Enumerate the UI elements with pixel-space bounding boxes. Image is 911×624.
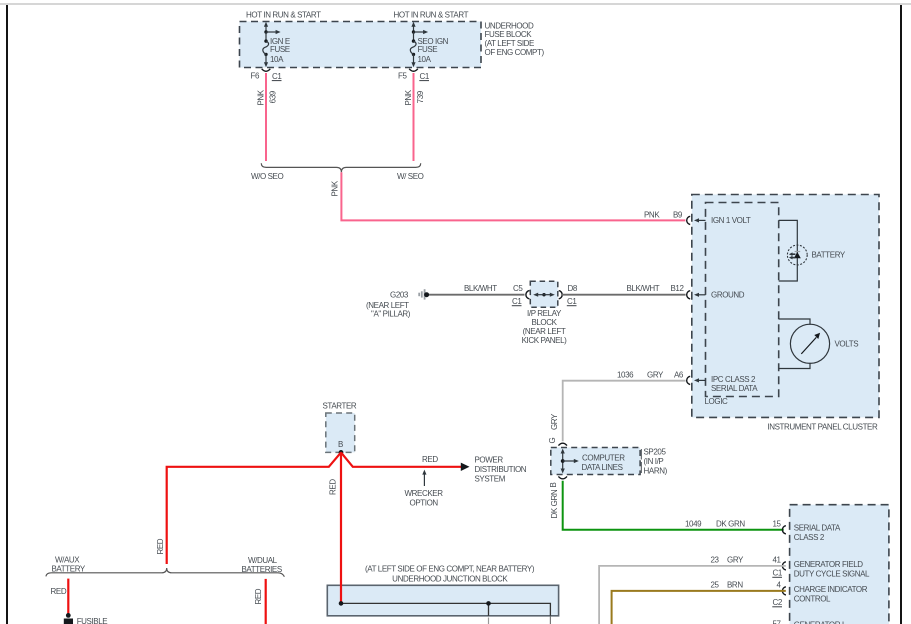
- svg-text:W/O SEO: W/O SEO: [251, 172, 283, 181]
- svg-text:1036: 1036: [617, 371, 634, 380]
- svg-text:C2: C2: [773, 598, 783, 607]
- svg-text:GENERATOR L: GENERATOR L: [794, 621, 847, 624]
- svg-text:G: G: [548, 438, 557, 444]
- svg-text:A6: A6: [674, 371, 684, 380]
- svg-text:CONTROL: CONTROL: [794, 594, 831, 603]
- svg-text:C1: C1: [272, 72, 282, 81]
- svg-text:W/DUAL: W/DUAL: [248, 556, 278, 565]
- svg-text:BLOCK: BLOCK: [531, 318, 557, 327]
- svg-text:GENERATOR FIELD: GENERATOR FIELD: [794, 560, 863, 569]
- svg-text:OPTION: OPTION: [410, 498, 439, 507]
- svg-text:(IN I/P: (IN I/P: [644, 457, 664, 466]
- svg-text:BATTERY: BATTERY: [812, 250, 846, 259]
- svg-text:UNDERHOOD JUNCTION BLOCK: UNDERHOOD JUNCTION BLOCK: [392, 574, 508, 583]
- svg-text:RED: RED: [51, 587, 67, 596]
- svg-text:F5: F5: [398, 71, 407, 80]
- svg-text:GROUND: GROUND: [711, 291, 745, 300]
- svg-text:PNK: PNK: [644, 211, 660, 220]
- svg-text:B12: B12: [671, 284, 685, 293]
- svg-text:INSTRUMENT PANEL CLUSTER: INSTRUMENT PANEL CLUSTER: [767, 423, 878, 432]
- svg-text:STARTER: STARTER: [323, 401, 357, 410]
- svg-text:DK GRN: DK GRN: [716, 519, 745, 528]
- svg-text:DATA LINES: DATA LINES: [582, 463, 623, 472]
- svg-text:FUSE BLOCK: FUSE BLOCK: [485, 30, 533, 39]
- svg-text:(AT LEFT SIDE: (AT LEFT SIDE: [485, 39, 535, 48]
- svg-text:"A" PILLAR): "A" PILLAR): [371, 310, 411, 319]
- svg-text:SERIAL DATA: SERIAL DATA: [794, 523, 841, 532]
- svg-text:639: 639: [269, 90, 278, 103]
- svg-text:DUTY CYCLE SIGNAL: DUTY CYCLE SIGNAL: [794, 569, 870, 578]
- svg-text:(AT LEFT SIDE OF ENG COMPT, NE: (AT LEFT SIDE OF ENG COMPT, NEAR BATTERY…: [365, 565, 535, 574]
- svg-text:POWER: POWER: [475, 456, 504, 465]
- svg-text:SYSTEM: SYSTEM: [475, 475, 506, 484]
- svg-text:C1: C1: [420, 72, 430, 81]
- svg-text:23: 23: [711, 555, 720, 564]
- svg-text:57: 57: [773, 619, 782, 624]
- svg-text:KICK PANEL): KICK PANEL): [522, 336, 568, 345]
- svg-text:W/ SEO: W/ SEO: [397, 172, 424, 181]
- svg-text:BATTERIES: BATTERIES: [242, 565, 282, 574]
- svg-text:W/AUX: W/AUX: [55, 556, 80, 565]
- svg-text:B: B: [338, 440, 343, 449]
- svg-text:10A: 10A: [270, 55, 284, 64]
- svg-text:HOT IN RUN & START: HOT IN RUN & START: [394, 11, 469, 20]
- svg-text:1049: 1049: [685, 519, 702, 528]
- svg-text:CLASS 2: CLASS 2: [794, 533, 825, 542]
- svg-text:RED: RED: [422, 455, 438, 464]
- svg-text:BLK/WHT: BLK/WHT: [627, 284, 660, 293]
- svg-text:C1: C1: [773, 568, 783, 577]
- svg-text:DK GRN: DK GRN: [550, 489, 559, 518]
- svg-text:B9: B9: [673, 211, 683, 220]
- svg-text:RED: RED: [254, 588, 263, 604]
- svg-text:15: 15: [773, 519, 782, 528]
- svg-text:(NEAR LEFT: (NEAR LEFT: [523, 327, 566, 336]
- svg-text:SP205: SP205: [644, 447, 667, 456]
- svg-text:739: 739: [416, 90, 425, 103]
- svg-text:FUSE: FUSE: [418, 45, 438, 54]
- svg-text:GRY: GRY: [727, 555, 744, 564]
- svg-text:F6: F6: [250, 71, 259, 80]
- svg-text:BLK/WHT: BLK/WHT: [464, 284, 497, 293]
- svg-text:FUSIBLE: FUSIBLE: [77, 617, 108, 624]
- svg-text:C1: C1: [567, 297, 577, 306]
- svg-text:HOT IN RUN & START: HOT IN RUN & START: [246, 11, 321, 20]
- svg-text:PNK: PNK: [256, 89, 265, 105]
- svg-text:WRECKER: WRECKER: [405, 489, 444, 498]
- svg-text:DISTRIBUTION: DISTRIBUTION: [475, 465, 527, 474]
- svg-text:10A: 10A: [418, 55, 432, 64]
- svg-text:LOGIC: LOGIC: [705, 397, 729, 406]
- svg-text:B: B: [549, 483, 558, 488]
- svg-text:G203: G203: [390, 291, 409, 300]
- svg-text:C5: C5: [513, 284, 523, 293]
- svg-text:GRY: GRY: [647, 371, 664, 380]
- svg-text:4: 4: [777, 580, 782, 589]
- svg-text:RED: RED: [156, 538, 165, 554]
- svg-text:COMPUTER: COMPUTER: [582, 454, 625, 463]
- svg-text:BATTERY: BATTERY: [52, 565, 86, 574]
- svg-text:41: 41: [773, 555, 782, 564]
- svg-text:PNK: PNK: [331, 180, 340, 196]
- svg-text:I/P RELAY: I/P RELAY: [527, 309, 562, 318]
- svg-text:HARN): HARN): [644, 466, 668, 475]
- svg-text:CHARGE INDICATOR: CHARGE INDICATOR: [794, 585, 868, 594]
- svg-text:IGN 1 VOLT: IGN 1 VOLT: [711, 216, 751, 225]
- svg-text:GRY: GRY: [550, 413, 559, 430]
- svg-text:RED: RED: [329, 479, 338, 495]
- svg-text:D8: D8: [568, 284, 578, 293]
- svg-text:VOLTS: VOLTS: [835, 339, 859, 348]
- svg-text:IPC CLASS 2: IPC CLASS 2: [711, 375, 756, 384]
- svg-text:SERIAL DATA: SERIAL DATA: [711, 384, 758, 393]
- svg-text:BRN: BRN: [727, 580, 743, 589]
- svg-text:25: 25: [711, 580, 720, 589]
- svg-text:FUSE: FUSE: [270, 45, 290, 54]
- svg-text:C1: C1: [512, 297, 522, 306]
- svg-text:OF ENG COMPT): OF ENG COMPT): [485, 48, 545, 57]
- svg-text:PNK: PNK: [404, 89, 413, 105]
